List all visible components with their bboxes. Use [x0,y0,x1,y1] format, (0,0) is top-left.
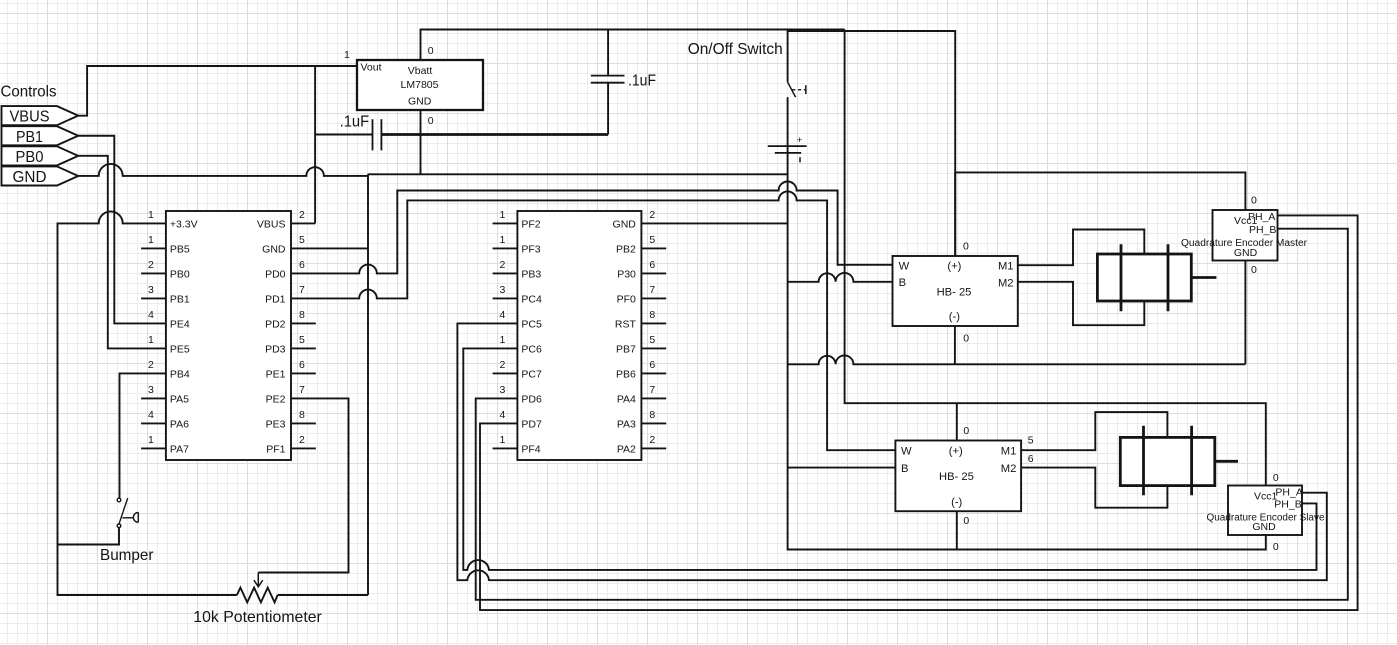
svg-text:PD6: PD6 [521,393,542,405]
svg-text:7: 7 [649,384,655,396]
svg-text:5: 5 [649,234,655,246]
svg-text:2: 2 [649,434,655,446]
pin 2 PB3 [493,259,542,280]
svg-text:(-): (-) [951,497,962,509]
svg-text:2: 2 [148,359,154,371]
wire +12V rail to HB-25 slave side [845,30,1266,486]
svg-text:0: 0 [963,332,969,344]
wire U4 B to battery negative with hops [788,273,893,282]
wire ground net vertical to potentiometer [367,174,369,595]
svg-text:PF0: PF0 [617,293,636,305]
svg-text:PB4: PB4 [170,368,190,380]
wire PD1 to HB-25 slave W [291,191,895,450]
svg-text:W: W [899,261,910,273]
svg-text:PD7: PD7 [521,418,542,430]
svg-text:PD1: PD1 [265,293,286,305]
svg-text:HB- 25: HB- 25 [937,286,972,298]
svg-text:PE5: PE5 [170,343,190,355]
svg-text:2: 2 [148,259,154,271]
svg-text:PE2: PE2 [266,393,286,405]
svg-text:8: 8 [649,409,655,421]
wire ground bus to battery negative [368,173,788,175]
svg-text:8: 8 [299,409,305,421]
svg-text:PH_A: PH_A [1275,486,1302,498]
svg-text:LM7805: LM7805 [401,79,439,91]
pin 5 PB2 [616,234,666,255]
svg-text:PF1: PF1 [266,443,285,455]
svg-text:PA2: PA2 [617,443,636,455]
wire U2 VBUS pin to VBUS net [291,222,315,224]
pin 8 PD2 [265,309,316,330]
pin 2 PC7 [493,359,542,380]
pin 2 PF1 [266,434,316,455]
svg-text:(-): (-) [949,311,960,323]
wire PD7 to encoder master PH_A [480,215,1358,610]
svg-text:On/Off Switch: On/Off Switch [688,41,783,58]
wire U4 (-) to ground bus [954,326,956,364]
wire U5 (+) to +12V [956,403,958,440]
svg-text:7: 7 [299,284,305,296]
svg-text:PB0: PB0 [16,149,44,166]
svg-text:0: 0 [963,425,969,437]
wire U4 M2 to motor 1 [1018,282,1145,325]
svg-text:2: 2 [500,359,506,371]
svg-text:PF4: PF4 [521,443,540,455]
pin 7 PD1 [265,284,305,305]
wire ground bus right with hops [788,355,1246,364]
svg-text:3: 3 [148,284,154,296]
svg-text:PC5: PC5 [521,318,542,330]
pin 4 PD7 [500,409,542,430]
wire C2 to ground bus [607,83,609,135]
svg-text:PC7: PC7 [521,368,542,380]
pin 6 PB6 [616,359,666,380]
pin 3 PD6 [500,384,542,405]
svg-text:2: 2 [649,209,655,221]
svg-text:0: 0 [1251,194,1257,206]
svg-text:GND: GND [1252,521,1276,533]
svg-text:5: 5 [1028,435,1034,447]
svg-text:PC6: PC6 [521,343,542,355]
svg-text:6: 6 [649,259,655,271]
svg-text:PH_A: PH_A [1248,211,1275,223]
pin 7 PA4 [617,384,666,405]
svg-text:RST: RST [615,318,637,330]
svg-text:B: B [899,277,906,289]
pin 1 PE5 [148,334,190,355]
svg-text:+3.3V: +3.3V [170,218,198,230]
svg-text:GND: GND [1234,247,1258,259]
pin 1 PA7 [141,434,189,455]
pin 6 PE1 [266,359,316,380]
wire +12V to encoder master Vcc [955,172,1245,210]
net flag VBUS [2,106,79,126]
bumper switch SW2 [117,498,138,527]
wire PD0 to HB-25 master W [291,182,893,274]
svg-text:1: 1 [344,49,350,61]
pin 1 PC6 [500,334,542,355]
svg-text:8: 8 [299,309,305,321]
svg-text:6: 6 [649,359,655,371]
pin 5 PD3 [265,334,316,355]
net flag PB1 [2,126,79,146]
svg-text:GND: GND [613,218,637,230]
pin 8 PE3 [266,409,316,430]
wire bumper to +3.3V net [58,528,120,545]
wire PC5 to encoder slave PH_A [457,323,1326,580]
wire battery negative bus [788,146,1266,549]
pin 2 PB0 [141,259,190,280]
pin 4 PC5 [500,309,542,330]
wire switch to battery [787,97,789,146]
battery BT1 negative plate [775,152,801,154]
wire U1 GND to ground bus [420,110,422,174]
wire PC6 to encoder slave PH_B [463,348,1316,570]
svg-text:1: 1 [500,209,506,221]
pin 3 PA5 [141,384,189,405]
svg-text:PB2: PB2 [616,243,636,255]
svg-text:PA6: PA6 [170,418,189,430]
pin 2 PA2 [617,434,666,455]
battery BT1 positive plate [768,145,807,147]
pin 8 RST [615,309,666,330]
svg-text:5: 5 [299,334,305,346]
svg-text:PH_B: PH_B [1274,499,1301,511]
svg-text:GND: GND [13,169,47,186]
svg-text:1: 1 [148,209,154,221]
svg-text:4: 4 [148,309,154,321]
svg-text:PD0: PD0 [265,268,286,280]
wire C1 to ground bus (thick) [381,133,608,136]
microcontroller header U3 [517,211,641,460]
pin 8 PA3 [617,409,666,430]
motor driver U4 HB-25 master box [893,256,1018,326]
svg-text:1: 1 [148,334,154,346]
pin 5 GND [262,234,305,255]
svg-text:Bumper: Bumper [100,547,154,564]
svg-text:PD3: PD3 [265,343,286,355]
svg-text:3: 3 [500,384,506,396]
svg-text:0: 0 [1273,472,1279,484]
svg-text:PB0: PB0 [170,268,190,280]
pin 1 PB5 [141,234,190,255]
wire U4 M1 to motor 1 [1018,230,1145,266]
svg-text:PE4: PE4 [170,318,190,330]
svg-text:1: 1 [500,234,506,246]
svg-text:1: 1 [500,334,506,346]
svg-text:4: 4 [500,409,506,421]
svg-text:B: B [901,463,908,475]
svg-text:PA4: PA4 [617,393,636,405]
pin 5 PB7 [616,334,666,355]
svg-text:+: + [797,135,803,146]
svg-text:4: 4 [148,409,154,421]
svg-text:6: 6 [1028,453,1034,465]
svg-text:0: 0 [428,45,434,57]
motor M1 [1097,244,1216,311]
pin 7 PF0 [617,284,667,305]
svg-text:7: 7 [299,384,305,396]
pin 2 VBUS [257,209,305,230]
svg-text:PE3: PE3 [266,418,286,430]
svg-text:7: 7 [649,284,655,296]
svg-text:GND: GND [408,96,432,108]
svg-text:PD2: PD2 [265,318,286,330]
pin 1 PF2 [493,209,541,230]
svg-text:3: 3 [148,384,154,396]
wire U5 M2 to motor 2 [1021,468,1167,508]
wire U2 GND pin to ground net [291,247,368,249]
svg-text:PH_B: PH_B [1249,224,1276,236]
resistor R1 10k potentiometer zigzag [237,588,278,603]
potentiometer wiper arrow [254,573,263,587]
net flag PB0 [2,146,79,166]
wire U2 +3.3V to bumper and potentiometer [58,211,237,595]
quadrature encoder U6 master box [1213,210,1278,261]
svg-text:3: 3 [500,284,506,296]
pin 4 PA6 [141,409,189,430]
svg-text:PF3: PF3 [521,243,540,255]
pin 2 PB4 [148,359,190,380]
svg-text:PB3: PB3 [521,268,541,280]
capacitor C2 plates [591,76,625,83]
svg-text:PA7: PA7 [170,443,189,455]
svg-text:4: 4 [500,309,506,321]
svg-text:0: 0 [428,115,434,127]
svg-text:PB1: PB1 [170,293,190,305]
wire U3 GND to battery negative bus [641,222,787,224]
pin 2 GND [613,209,656,230]
svg-text:(+): (+) [949,445,963,457]
wire GND flag bus with hops [78,164,368,176]
wire PB4 to bumper switch [120,373,166,498]
pin 6 P30 [617,259,666,280]
battery BT1 minus tick [799,157,801,162]
svg-text:1: 1 [148,434,154,446]
svg-text:VBUS: VBUS [257,218,286,230]
pin 3 PC4 [493,284,542,305]
svg-text:8: 8 [649,309,655,321]
svg-text:W: W [901,446,912,458]
pin 3 PB1 [141,284,190,305]
wire PB0 flag to U2 PE5 [78,156,166,349]
wire U6 GND to ground bus [1244,261,1246,365]
svg-text:5: 5 [649,334,655,346]
svg-text:10k Potentiometer: 10k Potentiometer [193,609,322,626]
svg-text:2: 2 [299,434,305,446]
svg-text:.1uF: .1uF [340,113,370,130]
svg-text:2: 2 [500,259,506,271]
svg-text:PE1: PE1 [266,368,286,380]
svg-text:VBUS: VBUS [10,109,50,126]
svg-text:.1uF: .1uF [628,73,656,90]
svg-text:PB1: PB1 [16,129,43,146]
switch SW1 blade [788,82,796,97]
wire +12V rail to capacitor C2 [607,30,609,76]
pin 4 PE4 [148,309,190,330]
svg-text:0: 0 [1251,264,1257,276]
svg-text:6: 6 [299,259,305,271]
wire potentiometer to ground net [278,594,368,596]
wire U5 (-) to battery negative [956,511,958,549]
svg-text:PB5: PB5 [170,243,190,255]
svg-text:0: 0 [963,241,969,253]
svg-text:HB- 25: HB- 25 [939,471,974,483]
svg-text:Vbatt: Vbatt [408,65,433,77]
pin 6 PD0 [265,259,305,280]
svg-text:PF2: PF2 [521,218,540,230]
svg-text:Controls: Controls [1,84,57,101]
svg-text:2: 2 [299,209,305,221]
svg-text:(+): (+) [947,260,961,272]
svg-text:P30: P30 [617,268,636,280]
switch SW1 wire from +12V rail [787,30,789,82]
wire PE2 to potentiometer wiper [258,398,348,572]
svg-text:1: 1 [500,434,506,446]
net flag GND [2,166,79,186]
wire U4 (+) to +12V [954,172,956,256]
svg-text:PA3: PA3 [617,418,636,430]
wire U5 B to battery negative [788,467,896,469]
wire PB1 flag to U2 PE4 [78,136,166,324]
motor driver U5 HB-25 slave box [895,441,1021,512]
svg-text:GND: GND [262,243,286,255]
svg-text:5: 5 [299,234,305,246]
svg-text:6: 6 [299,359,305,371]
svg-text:M2: M2 [1001,463,1017,475]
voltage regulator U1 LM7805 box [357,60,483,110]
svg-text:M1: M1 [1001,446,1017,458]
svg-text:M1: M1 [998,261,1014,273]
wire VBUS net to capacitor C1 [315,134,372,136]
svg-text:0: 0 [1273,541,1279,553]
pin 7 PE2 [266,384,305,405]
svg-text:PC4: PC4 [521,293,542,305]
wire U1 Vbatt to +12V rail [421,30,845,61]
wire U5 M1 to motor 2 [1021,412,1167,450]
pin 1 PF4 [493,434,541,455]
capacitor C1 plates [373,119,382,150]
quadrature encoder U7 slave box [1228,486,1302,536]
svg-text:PB7: PB7 [616,343,636,355]
svg-text:0: 0 [963,515,969,527]
microcontroller header U2 [166,211,291,460]
svg-text:1: 1 [148,234,154,246]
svg-text:PB6: PB6 [616,368,636,380]
svg-text:PA5: PA5 [170,393,189,405]
pin 1 +3.3V [148,209,198,230]
wire PD6 to encoder master PH_B [476,229,1348,600]
wire VBUS flag to LM7805 Vout pin [78,66,357,116]
wire VBUS vertical to U2 [314,66,316,223]
pin 1 PF3 [493,234,541,255]
svg-text:M2: M2 [998,277,1014,289]
motor M2 [1120,426,1238,496]
svg-text:Vout: Vout [361,61,382,73]
wire +12V rail upper-right branch [788,31,956,256]
switch SW1 actuator dashes [792,89,805,91]
switch SW1 actuator bar [805,85,807,94]
